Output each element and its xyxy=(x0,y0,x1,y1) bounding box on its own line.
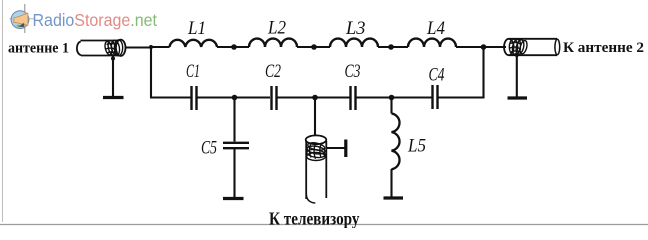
svg-text:L3: L3 xyxy=(345,19,365,39)
wire output node to coax 2 xyxy=(484,46,507,48)
wire left riser xyxy=(151,47,191,98)
capacitor C2 xyxy=(272,86,277,110)
capacitor C1 xyxy=(192,86,197,110)
coaxial cable to antenna 2 xyxy=(504,39,560,56)
wire shield tap of TV coax xyxy=(327,147,345,149)
node 4 (output) xyxy=(481,44,487,50)
svg-text:антенне 1: антенне 1 xyxy=(8,41,69,57)
node 3 (L3/L4, to L5 branch) xyxy=(388,44,394,50)
inductor L2 xyxy=(249,39,297,47)
svg-text:К антенне 2: К антенне 2 xyxy=(563,40,644,56)
wire braid of coax 1 to ground xyxy=(112,56,114,97)
svg-text:L2: L2 xyxy=(267,19,286,39)
node 2 (L2/L3, to TV branch) xyxy=(311,44,317,50)
svg-text:L4: L4 xyxy=(426,19,445,39)
svg-text:C1: C1 xyxy=(186,62,200,82)
inductor L5 xyxy=(392,114,400,170)
wire L1 to node 1 xyxy=(217,46,249,48)
ground under L5 xyxy=(384,196,404,199)
capacitor C3 xyxy=(351,86,356,110)
wire L5 branch from node 7 xyxy=(390,98,392,114)
wire L5 to ground xyxy=(390,169,392,197)
wire C5 to ground xyxy=(233,149,235,197)
coaxial cable to antenna 1 xyxy=(77,40,126,57)
capacitor C5 xyxy=(223,143,249,148)
scan border line left xyxy=(2,0,4,222)
svg-text:L5: L5 xyxy=(407,137,426,157)
wire C1 to node 5 xyxy=(198,96,271,98)
svg-text:RadioStorage.net: RadioStorage.net xyxy=(33,10,158,30)
ground under coax 2 xyxy=(508,96,528,99)
inductor L3 xyxy=(330,39,378,47)
svg-text:C2: C2 xyxy=(265,62,281,82)
capacitor C4 xyxy=(433,85,438,109)
wire L3 to node 3 xyxy=(378,46,408,48)
RadioStorage.net logo xyxy=(10,4,158,33)
wire L4 to output node xyxy=(456,46,505,48)
wire braid of coax 2 to ground xyxy=(516,55,518,97)
node: coax 1 braid xyxy=(111,57,115,61)
wire top rail to L1 xyxy=(151,46,170,48)
node 7 (C3/C4, L5 tap) xyxy=(389,95,395,101)
wire C3 to node 7 xyxy=(357,96,432,98)
scan border line bottom xyxy=(0,224,648,226)
svg-text:L1: L1 xyxy=(187,19,206,39)
svg-text:К телевизору: К телевизору xyxy=(269,209,360,229)
wire coax 1 to input node xyxy=(125,46,152,48)
svg-text:C3: C3 xyxy=(345,62,361,82)
wire L2 to node 2 xyxy=(297,46,330,48)
inductor L4 xyxy=(408,39,456,47)
wire C2 to node 6 xyxy=(278,96,350,98)
node 1 (L1/L2, to C5 branch) xyxy=(231,44,237,50)
svg-text:C4: C4 xyxy=(429,66,445,86)
ground under C5 xyxy=(223,197,244,200)
node 6 (C2/C3, TV tap) xyxy=(312,95,318,101)
shield terminal bar xyxy=(344,140,347,158)
wire TV branch from node 6 xyxy=(314,98,316,137)
node: coax 2 braid xyxy=(515,53,519,57)
wire C5 branch from node 5 xyxy=(233,98,235,142)
node 5 (C1/C2, C5 tap) xyxy=(232,95,238,101)
wire C4 to output riser xyxy=(439,47,484,98)
svg-text:C5: C5 xyxy=(201,139,217,159)
node: input corner xyxy=(149,45,153,49)
ground under coax 1 xyxy=(103,96,124,99)
inductor L1 xyxy=(170,40,218,47)
coaxial cable to TV xyxy=(306,135,327,203)
